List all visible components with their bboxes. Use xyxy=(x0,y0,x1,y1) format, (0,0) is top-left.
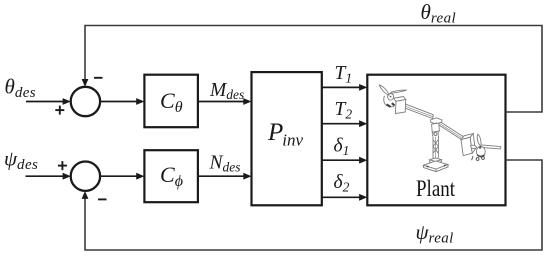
plant sketch: tail rotor box xyxy=(461,134,475,156)
plant sketch: left motor shield xyxy=(384,96,394,107)
plant sketch: base pedestal xyxy=(423,158,448,172)
plus sign at S2 xyxy=(58,161,67,170)
svg-text:δ1: δ1 xyxy=(334,136,350,158)
plant sketch: left motor mount dark bracket xyxy=(387,103,395,107)
plant sketch: left main rotor blades xyxy=(379,85,407,100)
wire: P_inv to Plant delta1 xyxy=(322,157,368,164)
wire: S2 to C_phi xyxy=(100,173,144,180)
block Plant xyxy=(367,75,505,206)
wire: psi_des input arrow into summing junction S2 xyxy=(26,173,71,180)
wire: theta_real feedback loop xyxy=(82,26,542,113)
minus sign at S2 xyxy=(98,198,107,200)
plant sketch: center pivot box lid xyxy=(431,118,442,125)
wire: P_inv to Plant delta2 xyxy=(322,194,368,201)
wire: C_theta to P_inv (M_des) xyxy=(198,98,252,105)
svg-text:T1: T1 xyxy=(335,63,353,85)
summing junction S1 xyxy=(71,87,100,116)
svg-text:Mdes: Mdes xyxy=(209,80,244,102)
summing junction S2 xyxy=(71,162,100,191)
plant sketch: tail motor body xyxy=(476,146,485,156)
plant sketch: tail propeller blades xyxy=(470,134,481,148)
svg-text:θdes: θdes xyxy=(5,75,37,101)
svg-text:Pinv: Pinv xyxy=(267,119,304,150)
plant sketch: tail rods xyxy=(481,145,501,149)
svg-text:T2: T2 xyxy=(335,99,353,121)
block P_inv (inverse plant map) xyxy=(252,72,322,205)
plant sketch: tail underside feet xyxy=(472,156,485,160)
plant sketch: center pivot box body xyxy=(432,123,440,132)
svg-text:Cϕ: Cϕ xyxy=(160,162,183,190)
svg-text:ψdes: ψdes xyxy=(4,147,38,173)
plant sketch: twin-rotor helicopter model xyxy=(379,85,501,172)
svg-text:δ2: δ2 xyxy=(334,172,350,194)
svg-text:Plant: Plant xyxy=(416,176,456,201)
plant sketch: pivot fork joint xyxy=(433,131,439,136)
wire: S1 to C_theta xyxy=(100,98,144,105)
plant sketch: main beam left arm xyxy=(403,103,434,118)
node theta_des input label xyxy=(5,75,37,101)
wire: C_phi to P_inv (N_des) xyxy=(198,173,252,180)
svg-text:Cθ: Cθ xyxy=(160,88,183,116)
svg-text:Ndes: Ndes xyxy=(209,153,241,175)
block C_phi (controller) xyxy=(144,150,198,202)
plant sketch: tower column with bracing xyxy=(433,136,438,158)
svg-text:θreal: θreal xyxy=(421,0,457,26)
minus sign at S1 xyxy=(94,77,103,79)
plant sketch: main beam right arm xyxy=(439,121,464,140)
plus sign at S1 xyxy=(55,106,64,115)
wire: theta_des input arrow into summing junction S1 xyxy=(26,98,71,105)
svg-text:ψreal: ψreal xyxy=(416,220,454,246)
block C_theta (controller) xyxy=(144,75,198,128)
wire: psi_real feedback loop xyxy=(82,160,542,250)
plant sketch: left motor box xyxy=(394,97,406,114)
wire: P_inv to Plant T1 xyxy=(322,84,368,91)
wire: P_inv to Plant T2 xyxy=(322,120,368,127)
